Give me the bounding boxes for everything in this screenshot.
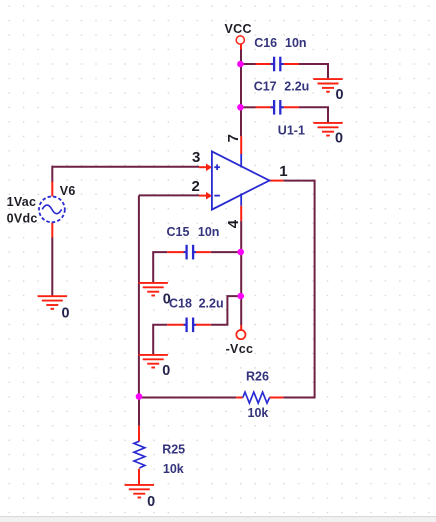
svg-text:10k: 10k (248, 406, 269, 420)
svg-text:0Vdc: 0Vdc (7, 211, 38, 225)
svg-text:10n: 10n (198, 225, 220, 239)
svg-text:7: 7 (225, 134, 242, 142)
svg-text:2.2u: 2.2u (199, 297, 224, 311)
svg-text:4: 4 (225, 219, 242, 228)
svg-text:2: 2 (192, 178, 200, 195)
svg-text:0: 0 (336, 87, 344, 103)
svg-text:VCC: VCC (225, 22, 252, 36)
svg-text:10n: 10n (285, 36, 307, 50)
svg-text:-Vcc: -Vcc (226, 342, 254, 356)
svg-text:0: 0 (335, 130, 343, 146)
svg-text:1Vac: 1Vac (7, 195, 37, 209)
svg-text:2.2u: 2.2u (284, 79, 309, 93)
svg-text:0: 0 (62, 306, 70, 322)
svg-text:1: 1 (279, 163, 287, 180)
svg-text:C18: C18 (169, 297, 192, 311)
svg-text:0: 0 (162, 363, 170, 379)
svg-text:R25: R25 (162, 443, 185, 457)
svg-text:3: 3 (192, 149, 200, 166)
svg-text:C15: C15 (167, 225, 190, 239)
svg-text:0: 0 (147, 494, 155, 510)
svg-text:V6: V6 (60, 184, 76, 198)
svg-text:10k: 10k (163, 462, 184, 476)
svg-text:C16: C16 (254, 36, 277, 50)
svg-text:R26: R26 (246, 369, 269, 383)
svg-text:U1-1: U1-1 (278, 124, 305, 138)
svg-text:0: 0 (163, 292, 171, 308)
svg-text:C17: C17 (254, 79, 277, 93)
